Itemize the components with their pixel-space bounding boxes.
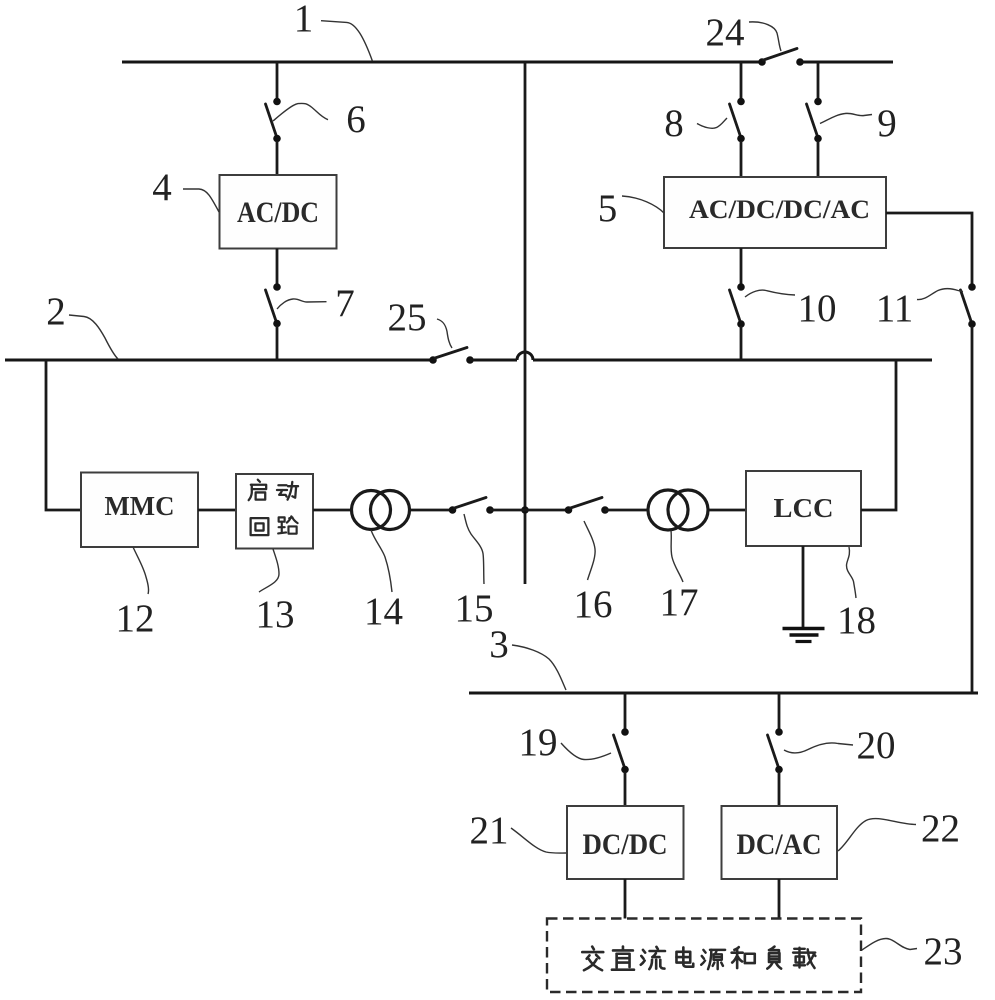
leader line 2 [69, 315, 118, 359]
bus 2 right segment [533, 359, 932, 362]
svg-text:5: 5 [598, 187, 618, 230]
switch 19 bottom contact dot [621, 766, 629, 774]
bus 1 right segment [800, 61, 893, 64]
svg-text:AC/DC/DC/AC: AC/DC/DC/AC [689, 195, 870, 224]
svg-text:14: 14 [364, 590, 403, 633]
leader line 3 [512, 645, 566, 690]
wire converter 5 right side to switch 11 [886, 213, 972, 284]
leader line 13 [259, 549, 279, 592]
wire switch 11 to bus 3 [971, 326, 974, 693]
bus 1 (AC bus) left segment [122, 61, 762, 64]
switch 15 right contact dot [486, 506, 494, 514]
leader line 9 [820, 113, 872, 123]
leader line 11 [917, 289, 963, 300]
leader line 6 [273, 103, 328, 121]
svg-text:19: 19 [519, 721, 558, 764]
junction dot centre wire with converter chain [521, 506, 529, 514]
switch 20 top contact dot [775, 728, 783, 736]
start-up circuit U13 box [236, 474, 313, 549]
svg-text:LCC: LCC [774, 492, 834, 523]
bus 2 (DC bus) left segment [5, 359, 433, 362]
wire MMC to start-up circuit 13 [198, 509, 236, 512]
leader line 10 [745, 290, 795, 297]
svg-text:7: 7 [335, 282, 355, 325]
svg-text:22: 22 [921, 807, 960, 850]
svg-text:16: 16 [574, 583, 613, 626]
svg-text:20: 20 [857, 724, 896, 767]
load block 23 Chinese label [582, 947, 815, 971]
svg-text:12: 12 [116, 597, 155, 640]
wire DC/AC to load box [778, 879, 781, 919]
ground symbol [783, 629, 825, 642]
bus 2 hop over centre line (no connection) [517, 352, 533, 360]
switch 24 right contact dot [796, 58, 804, 66]
transformer T14 winding 1 [352, 491, 391, 530]
leader line 25 [437, 319, 452, 348]
bus 2 middle segment [470, 359, 517, 362]
switch 8 top contact dot [737, 98, 745, 106]
leader line 17 [671, 531, 683, 583]
start-up circuit label (qi dong / hui lu) [249, 480, 298, 535]
switch 20 blade [768, 735, 779, 766]
leader line 8 [697, 118, 727, 128]
converter U4 box AC/DC [220, 175, 337, 249]
switch 7 blade [266, 290, 277, 321]
switch 25 right contact dot [466, 356, 474, 364]
converter U22 box DC/AC [722, 806, 838, 879]
switch 19 blade [614, 735, 625, 766]
svg-text:15: 15 [455, 587, 494, 630]
leader line 14 [371, 530, 392, 592]
switch 10 blade [730, 290, 741, 321]
leader line 18 [847, 547, 857, 598]
transformer T14 winding 2 [371, 491, 410, 530]
wire switch 9 to converter 5 [817, 141, 820, 177]
leader line 24 [749, 22, 781, 51]
switch 20 bottom contact dot [775, 766, 783, 774]
wire switch 15 to switch 16 across centre line [490, 509, 569, 512]
leader line 4 [183, 189, 219, 212]
switch 24 left contact dot [758, 58, 766, 66]
leader line 22 [838, 819, 916, 851]
leader line 7 [277, 299, 327, 309]
leader line 12 [133, 547, 149, 594]
wire converter 4 to switch 7 [276, 249, 279, 285]
switch 6 top contact dot [273, 98, 281, 106]
switch 16 left contact dot [565, 506, 573, 514]
svg-text:13: 13 [256, 593, 295, 636]
centre vertical wire from bus 1 down through bus 2 [524, 62, 527, 584]
wire switch 6 to converter 4 [276, 141, 279, 175]
leader line 20 [784, 743, 853, 753]
switch 7 bottom contact dot [273, 320, 281, 328]
svg-text:DC/DC: DC/DC [583, 828, 668, 861]
svg-text:8: 8 [664, 102, 684, 145]
switch 10 bottom contact dot [737, 320, 745, 328]
wire bus1 to switch 9 [817, 62, 820, 99]
svg-text:9: 9 [877, 102, 897, 145]
converter U18 box LCC [746, 471, 861, 546]
switch 10 top contact dot [737, 283, 745, 291]
switch 11 top contact dot [968, 283, 976, 291]
switch 7 top contact dot [273, 283, 281, 291]
svg-text:21: 21 [470, 809, 509, 852]
wire start-up circuit to transformer 14 [313, 509, 353, 512]
wire bus 3 to switch 19 [624, 693, 627, 729]
wire bus 2 down-left to MMC [46, 360, 81, 510]
leader line 23 [862, 939, 917, 951]
switch 16 right contact dot [601, 506, 609, 514]
converter U12 box MMC [81, 473, 198, 548]
svg-text:2: 2 [46, 290, 66, 333]
wire switch 7 to bus 2 [276, 326, 279, 360]
wire switch 10 to bus 2 [740, 326, 743, 360]
switch 16 blade [571, 498, 603, 509]
wire bus 3 to switch 20 [778, 693, 781, 729]
leader line 5 [622, 196, 664, 213]
switch 25 blade [435, 348, 467, 359]
switch 11 bottom contact dot [968, 320, 976, 328]
svg-text:25: 25 [388, 296, 427, 339]
load block 23 dashed box (AC/DC sources and loads) [547, 919, 861, 993]
wire bus1 to switch 8 [740, 62, 743, 99]
leader line 21 [511, 828, 566, 853]
svg-text:11: 11 [876, 287, 914, 330]
wire transformer 17 to LCC [708, 509, 746, 512]
wire converter 5 to switch 10 [740, 248, 743, 284]
svg-text:AC/DC: AC/DC [237, 196, 319, 229]
bus 3 (DC bus) [469, 692, 978, 695]
wire LCC right side up to bus 2 [861, 360, 896, 510]
svg-text:DC/AC: DC/AC [737, 828, 822, 861]
wire switch 20 to DC/AC [778, 772, 781, 806]
switch 9 blade [807, 104, 818, 135]
svg-text:1: 1 [294, 0, 314, 40]
wire switch 19 to DC/DC [624, 772, 627, 806]
svg-text:10: 10 [798, 287, 837, 330]
svg-text:17: 17 [660, 581, 699, 624]
switch 24 blade [764, 49, 798, 61]
wire transformer 14 to switch 15 [410, 509, 450, 512]
switch 25 left contact dot [429, 356, 437, 364]
switch 15 blade [455, 498, 487, 509]
switch 6 bottom contact dot [273, 135, 281, 143]
leader line 1 [321, 21, 372, 61]
wire DC/DC to load box [624, 879, 627, 919]
transformer T17 winding 1 [648, 490, 688, 530]
svg-text:6: 6 [346, 98, 366, 141]
leader line 15 [464, 514, 484, 584]
leader line 19 [561, 743, 611, 760]
converter U5 box AC/DC/DC/AC [664, 177, 886, 248]
switch 8 blade [730, 104, 741, 135]
switch 11 blade [961, 290, 972, 321]
svg-text:MMC: MMC [105, 490, 175, 521]
converter U21 box DC/DC [567, 806, 684, 879]
switch 9 top contact dot [814, 98, 822, 106]
leader line 16 [584, 521, 595, 580]
switch 6 blade [266, 104, 277, 135]
wire switch 8 to converter 5 [740, 141, 743, 177]
wire switch 16 to transformer 17 [605, 509, 648, 512]
svg-text:24: 24 [706, 11, 745, 54]
wire bus1 to switch 6 [276, 62, 279, 99]
switch 19 top contact dot [621, 728, 629, 736]
transformer T17 winding 2 [668, 490, 708, 530]
wire LCC bottom to ground [802, 546, 805, 627]
switch 8 bottom contact dot [737, 135, 745, 143]
switch 15 left contact dot [449, 506, 457, 514]
switch 9 bottom contact dot [814, 135, 822, 143]
svg-text:18: 18 [837, 599, 876, 642]
svg-text:4: 4 [152, 166, 172, 209]
svg-text:23: 23 [924, 930, 963, 973]
